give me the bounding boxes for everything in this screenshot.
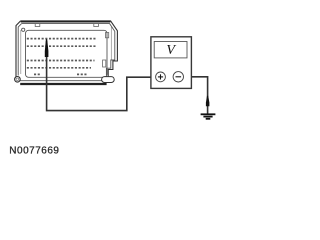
svg-text:N0077669: N0077669 [9, 146, 59, 157]
svg-text:V: V [166, 43, 176, 58]
